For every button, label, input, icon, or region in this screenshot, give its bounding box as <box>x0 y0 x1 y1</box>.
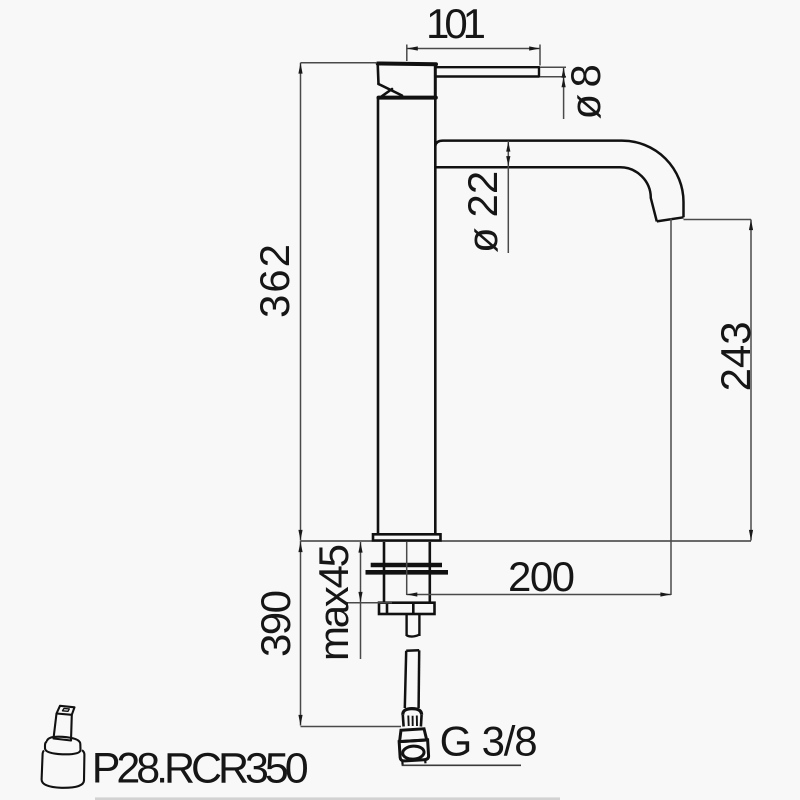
flexible hose <box>405 650 419 708</box>
svg-text:22: 22 <box>459 171 506 218</box>
hose connector nut G3/8 <box>398 729 429 765</box>
svg-text:101: 101 <box>426 0 486 47</box>
base flange <box>373 534 441 540</box>
washer plate 2 <box>366 570 449 575</box>
lever bar <box>435 67 539 76</box>
svg-text:390: 390 <box>252 590 299 657</box>
svg-text:ø: ø <box>562 94 609 120</box>
dimension 101 <box>407 45 540 66</box>
faucet body column <box>378 98 435 534</box>
svg-text:243: 243 <box>712 321 759 391</box>
tailpiece tube <box>407 614 420 637</box>
washer plate 1 <box>371 563 442 568</box>
faucet cap / handle base <box>378 64 436 98</box>
dimension ø8 <box>540 67 566 119</box>
svg-text:362: 362 <box>251 244 298 318</box>
dimension 390 <box>301 541 402 727</box>
svg-text:max45: max45 <box>310 544 357 661</box>
svg-text:8: 8 <box>562 64 609 87</box>
leader line under connector <box>402 764 521 766</box>
dimension 243 <box>684 220 752 541</box>
bottom cropped gray strip <box>95 797 560 800</box>
cartridge icon <box>42 706 85 788</box>
threaded shank below deck <box>384 542 430 603</box>
dimension 362 <box>301 63 378 541</box>
svg-text:P28.RCR350: P28.RCR350 <box>92 745 309 793</box>
svg-text:200: 200 <box>508 553 575 600</box>
dimension 200 <box>407 219 671 596</box>
deck / counter line <box>301 540 752 542</box>
hose ferrule collar <box>403 709 422 727</box>
svg-text:G 3/8: G 3/8 <box>440 717 538 764</box>
svg-text:ø: ø <box>459 227 506 253</box>
mounting nut <box>379 603 435 614</box>
dimension max45 <box>346 542 392 659</box>
spout <box>435 141 683 222</box>
dimension ø22 <box>507 141 509 253</box>
